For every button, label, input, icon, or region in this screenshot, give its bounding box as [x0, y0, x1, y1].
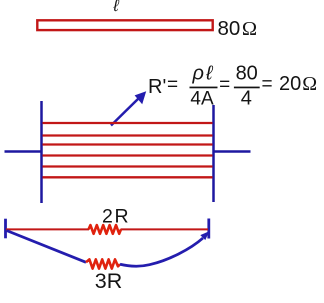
- svg-text:R': R': [148, 76, 166, 98]
- svg-text:=: =: [219, 75, 230, 96]
- svg-text:4: 4: [241, 88, 252, 110]
- svg-text:20Ω: 20Ω: [279, 73, 317, 95]
- svg-text:80Ω: 80Ω: [218, 17, 258, 40]
- svg-text:2R: 2R: [102, 206, 129, 228]
- svg-text:80: 80: [236, 63, 258, 85]
- svg-text:=: =: [167, 75, 178, 96]
- svg-text:3R: 3R: [95, 269, 122, 293]
- svg-text:4A: 4A: [190, 89, 214, 110]
- svg-text:ρℓ: ρℓ: [192, 63, 214, 85]
- svg-text:=: =: [261, 74, 272, 95]
- svg-text:ℓ: ℓ: [112, 0, 119, 15]
